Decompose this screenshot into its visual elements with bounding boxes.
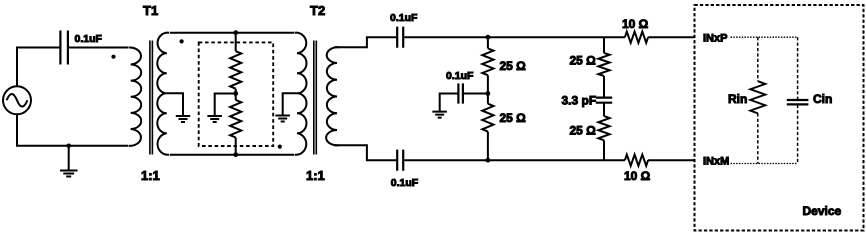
svg-text:25 Ω: 25 Ω (570, 124, 597, 138)
junction dot (source loop / ground) (66, 144, 71, 149)
wire T2 secondary top lead with step up (334, 37, 396, 47)
ground (T1 center tap) (176, 116, 190, 122)
capacitor C4 0.1uF (midpoint bypass) (458, 83, 463, 103)
svg-text:Device: Device (803, 204, 842, 218)
dashed vertical branch through Cin (797, 37, 799, 163)
wire lead to upper 25 Ohm (first divider) (487, 37, 489, 48)
wire bottom rail C3 to 10 Ohm and to INxM (404, 159, 694, 161)
T1 primary polarity dot (111, 55, 115, 59)
svg-text:10 Ω: 10 Ω (624, 169, 651, 183)
capacitor 3.3 pF (596, 98, 612, 103)
dashed box (termination network) (199, 42, 274, 146)
wire bottom rail T1 to T2 (170, 154, 294, 156)
svg-text:1:1: 1:1 (306, 168, 325, 183)
ground (T2 center tap) (275, 116, 290, 122)
resistor 10 Ohm (top series) (625, 32, 648, 43)
T1 primary winding (129, 47, 142, 145)
ground (source loop) (60, 171, 78, 177)
T1 secondary winding (157, 33, 169, 155)
svg-text:0.1uF: 0.1uF (391, 177, 419, 189)
node midpoint of termination divider (233, 91, 238, 96)
wire leads of 3.3 pF capacitor (603, 76, 605, 116)
T2 secondary winding (326, 47, 339, 145)
T1 secondary polarity dot (180, 39, 184, 43)
capacitor C1 0.1uF (series, source loop) (60, 31, 68, 65)
svg-text:0.1uF: 0.1uF (446, 70, 474, 82)
wire T2 primary center tap (283, 93, 297, 115)
dashed vertical branch through Rin (757, 37, 759, 163)
svg-text:0.1uF: 0.1uF (390, 12, 418, 24)
svg-text:Cin: Cin (813, 92, 832, 106)
T2 core (314, 41, 317, 155)
junction dot (top rail / termination) (233, 30, 238, 35)
svg-text:0.1uF: 0.1uF (75, 33, 103, 45)
wire first-divider midpoint to C4 and ground (440, 94, 488, 112)
svg-text:T1: T1 (143, 3, 158, 18)
capacitor Cin (787, 100, 809, 104)
resistor 25 Ohm (second divider, lower) (598, 116, 609, 140)
junction dot (bottom rail / first divider) (486, 158, 491, 163)
capacitor C2 0.1uF (top coupling) (397, 27, 403, 48)
wire T2 secondary bottom lead with step down (334, 145, 396, 160)
capacitor C3 0.1uF (bottom coupling) (397, 150, 403, 171)
wire top rail T1 to T2 (170, 32, 294, 34)
ground (termination midpoint) (207, 116, 222, 122)
wire lead to upper termination resistor (235, 33, 237, 52)
resistor 25 Ohm (second divider, upper) (598, 53, 609, 76)
resistor R2 (lower termination) (230, 100, 241, 138)
wire top rail C2 to 10 Ohm and to INxP (404, 36, 694, 38)
device outline dashed box (695, 5, 864, 231)
T2 primary polarity dot (278, 145, 282, 149)
resistor 10 Ohm (bottom series) (625, 155, 648, 166)
wire T1 secondary center tap (167, 93, 183, 116)
wire lower 25 Ohm to bottom rail (603, 140, 605, 160)
svg-text:INxM: INxM (703, 156, 729, 168)
resistor 25 Ohm (first divider, lower) (482, 104, 493, 132)
node midpoint of first divider (486, 91, 491, 96)
wire ground stub (source loop) (68, 146, 70, 171)
svg-text:Rin: Rin (728, 92, 747, 106)
junction dot (top rail / first divider) (486, 35, 491, 40)
T2 primary winding (295, 33, 307, 155)
svg-text:INxP: INxP (703, 33, 727, 45)
resistor R1 (upper termination) (230, 51, 241, 88)
junction dot (bottom rail / termination) (233, 152, 238, 157)
wire between termination resistors (235, 89, 237, 155)
svg-text:1:1: 1:1 (141, 168, 160, 183)
ground (C4) (432, 112, 447, 118)
svg-text:25 Ω: 25 Ω (500, 59, 527, 73)
resistor 25 Ohm (first divider, upper) (482, 48, 493, 75)
svg-text:25 Ω: 25 Ω (500, 111, 527, 125)
resistor Rin (750, 81, 765, 113)
wire termination midpoint to ground (215, 94, 236, 117)
svg-text:T2: T2 (310, 3, 325, 18)
T1 core (150, 41, 153, 155)
wire lead to upper 25 Ohm (second divider) (603, 37, 605, 53)
svg-text:25 Ω: 25 Ω (570, 54, 597, 68)
dotted internal INxP and INxM rails (731, 37, 798, 163)
wire between first-divider resistors (487, 75, 489, 160)
svg-text:3.3 pF: 3.3 pF (562, 94, 597, 108)
wire source loop (left vertical, top run to C1, bottom run to T1) (17, 48, 128, 146)
AC source V1 (3, 86, 31, 114)
svg-text:10 Ω: 10 Ω (622, 17, 649, 31)
